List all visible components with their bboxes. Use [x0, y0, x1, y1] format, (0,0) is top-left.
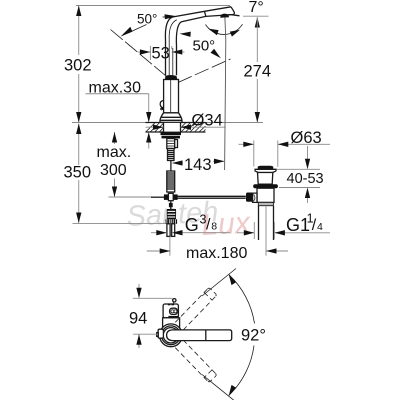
svg-text:max.: max.: [97, 144, 132, 161]
hose nipples: [166, 219, 178, 224]
svg-text:302: 302: [64, 57, 92, 75]
left tab: [157, 329, 164, 338]
neck outer curve: [165, 17, 172, 75]
shank through deck: [164, 123, 181, 133]
outlet stream line: [225, 18, 226, 171]
deck (counter) with hatch: [146, 123, 206, 133]
svg-text:Ø63: Ø63: [291, 129, 322, 147]
mounting nut (dark): [161, 132, 182, 138]
right swivel diagonal (dashed): [178, 59, 231, 83]
pop-up rod thin section: [170, 161, 172, 172]
drain ball joint dark: [246, 193, 253, 202]
dim 274: [244, 17, 272, 123]
spout head divider: [205, 11, 206, 16]
svg-text:max.180: max.180: [186, 245, 247, 262]
horizontal actuating rod: [151, 196, 246, 198]
svg-text:Ø34: Ø34: [192, 111, 223, 129]
svg-text:92°: 92°: [241, 327, 266, 345]
dim 53: [138, 44, 185, 62]
G3/8 connector: [167, 209, 176, 219]
svg-text:40-53: 40-53: [287, 171, 324, 187]
dim G1 1/4: [237, 212, 330, 240]
svg-text:7°: 7°: [249, 0, 264, 16]
drain o-ring: [253, 184, 278, 188]
dim G3/8: [151, 213, 230, 236]
spout head tip: [228, 7, 234, 15]
base circles: [160, 324, 183, 347]
dim 302: [64, 6, 92, 123]
svg-text:8: 8: [211, 221, 217, 233]
svg-text:350: 350: [64, 164, 92, 182]
swivel angle ray up: [202, 269, 236, 297]
rod cross joint: [164, 193, 178, 200]
dashed swivel spout up: [175, 287, 217, 330]
spout top edge: [173, 7, 232, 17]
handle lever pivot circle: [173, 299, 176, 304]
dim max.180: [147, 237, 288, 262]
dim Ø63: [239, 129, 331, 167]
92 arc with arrows: [229, 275, 255, 396]
dim max.30: [86, 80, 152, 149]
svg-text:94: 94: [129, 310, 147, 328]
aerator dome: [220, 14, 229, 18]
svg-text:274: 274: [244, 63, 272, 81]
pop-up rod ribbed segment 1: [168, 149, 175, 161]
dim max.300: [97, 132, 132, 197]
svg-text:/: /: [206, 217, 211, 234]
body left knob (pop-up lever): [160, 101, 163, 110]
dim 7deg: [232, 0, 269, 16]
faucet body below handle: [163, 318, 180, 328]
swivel angle ray down: [202, 375, 236, 400]
handle body: [163, 304, 178, 318]
riser inner line: [169, 20, 177, 76]
drain taper body: [258, 173, 273, 185]
drain body: [257, 188, 274, 202]
drain pull knob: [258, 166, 274, 169]
spout bottom edge: [182, 15, 233, 22]
top reference line (302 top): [76, 5, 230, 7]
faucet body (cartridge housing): [164, 80, 179, 114]
50#1 leader arrow to lower-left diagonal: [121, 25, 147, 37]
dim 350: [64, 124, 92, 224]
drain flange lip: [255, 169, 276, 172]
drain collar: [258, 202, 273, 205]
350 bottom reference line: [73, 223, 166, 225]
deck top extension line: [72, 122, 263, 124]
50#2 arrow to bend: [180, 32, 191, 37]
joint dark band: [165, 75, 178, 80]
50#2 arrow to diagonal: [211, 49, 221, 59]
50#1 leader arrow right to spout: [163, 14, 178, 19]
max300 bottom reference line: [109, 196, 153, 198]
threaded stud below nut: [167, 139, 178, 149]
svg-text:G: G: [185, 215, 199, 235]
svg-text:4: 4: [317, 221, 323, 233]
svg-text:max.30: max.30: [89, 80, 142, 97]
hose tubes below nipples: [167, 224, 175, 237]
base flange: [160, 113, 182, 123]
drain joint housing: [253, 193, 257, 202]
watermark SantehLux: [126, 196, 252, 242]
dim Ø34: [146, 111, 225, 130]
neck inner curve: [176, 22, 181, 76]
svg-text:50°: 50°: [137, 12, 157, 27]
rod below joint: [170, 201, 172, 209]
pop-up rod ribbed segment 2: [167, 171, 175, 192]
drain tailpipe: [259, 206, 274, 256]
dim 94: [129, 284, 173, 348]
svg-text:53: 53: [152, 44, 170, 62]
svg-text:300: 300: [100, 162, 127, 179]
50 swivel arc under head: [206, 24, 243, 36]
dashed swivel spout down: [175, 340, 217, 383]
dim 143: [172, 156, 225, 174]
dim 40-53: [277, 146, 324, 203]
left swivel diagonal (dashed): [111, 30, 167, 77]
spout bar solid: [167, 330, 232, 341]
svg-text:143: 143: [184, 156, 212, 174]
